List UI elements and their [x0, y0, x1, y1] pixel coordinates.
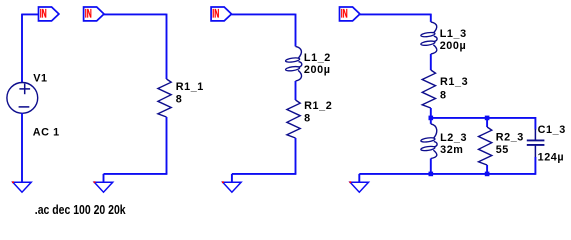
inductor L2_3: [421, 124, 468, 159]
wire ground stub c4: [358, 174, 360, 182]
wire R1_2 bottom lead: [295, 138, 297, 174]
resistor R2_3: [479, 127, 524, 165]
wire R1_3 bottom lead: [430, 108, 432, 118]
wire R1_1 bottom lead: [166, 117, 168, 174]
inductor L1_2: [285, 46, 331, 81]
svg-text:8: 8: [176, 94, 183, 106]
svg-text:R1_3: R1_3: [440, 76, 468, 88]
junction node bottom R2_3: [485, 172, 490, 177]
wire bottom rail: [359, 173, 535, 175]
svg-text:IN: IN: [85, 6, 92, 20]
svg-text:IN: IN: [212, 6, 219, 20]
resistor R1_2: [287, 100, 332, 138]
wire flag1 to V1 top: [22, 13, 39, 15]
svg-text:.ac dec 100 20 20k: .ac dec 100 20 20k: [35, 203, 126, 217]
net flag IN (L1_3): [340, 6, 360, 21]
wire V1 top lead: [21, 14, 23, 83]
svg-text:32m: 32m: [440, 144, 463, 156]
resistor R1_3: [422, 70, 468, 108]
svg-text:200µ: 200µ: [440, 40, 467, 52]
svg-text:55: 55: [496, 144, 509, 156]
svg-text:L2_3: L2_3: [440, 132, 467, 144]
wire ground stub c3: [231, 174, 233, 182]
net flag IN (L1_2): [211, 6, 231, 21]
svg-text:C1_3: C1_3: [538, 124, 566, 136]
svg-text:L1_2: L1_2: [304, 52, 331, 64]
net flag IN (V1): [39, 6, 59, 21]
wire L1_3 to R1_3: [430, 54, 432, 70]
wire L2_3 top lead: [430, 118, 432, 124]
svg-text:L1_3: L1_3: [440, 28, 467, 40]
wire L2_3 bottom lead: [430, 159, 432, 174]
wire R2_3 bottom lead: [486, 165, 488, 174]
ground G2: [94, 181, 113, 192]
svg-text:200µ: 200µ: [304, 64, 331, 76]
svg-text:R1_1: R1_1: [176, 81, 204, 93]
wire flag2 to R1_1: [104, 13, 167, 15]
wire L1_2 top lead: [295, 14, 297, 47]
svg-text:R1_2: R1_2: [304, 100, 332, 112]
svg-text:IN: IN: [341, 6, 348, 20]
resistor R1_1: [158, 79, 204, 117]
svg-text:124µ: 124µ: [538, 152, 565, 164]
svg-text:8: 8: [440, 89, 447, 101]
svg-text:8: 8: [304, 113, 311, 125]
wire top rail: [431, 117, 536, 119]
inductor L1_3: [421, 22, 467, 54]
wire R2_3 top lead: [486, 118, 488, 127]
svg-text:V1: V1: [33, 72, 47, 84]
junction node bottom L2_3: [429, 172, 434, 177]
wire bottom run c3: [232, 173, 297, 175]
svg-text:R2_3: R2_3: [496, 132, 524, 144]
ground G4: [349, 181, 368, 192]
capacitor C1_3: [527, 117, 566, 175]
svg-text:AC 1: AC 1: [33, 126, 60, 138]
wire bottom run c2: [104, 173, 168, 175]
wire flag3 to L1_2: [231, 13, 295, 15]
ground G1: [12, 181, 31, 192]
ground G3: [222, 181, 241, 192]
wire flag4 to L1_3: [360, 13, 431, 15]
svg-text:IN: IN: [40, 6, 47, 20]
voltage source V1: [7, 72, 60, 138]
wire L1_2 to R1_2: [295, 81, 297, 100]
wire ground stub c2: [103, 174, 105, 182]
wire L1_3 top lead: [430, 14, 432, 22]
junction node top L2_3: [429, 116, 434, 121]
junction node top R2_3: [485, 116, 490, 121]
wire R1_1 top lead: [166, 14, 168, 79]
wire V1 bottom lead: [21, 113, 23, 182]
net flag IN (R1_1): [84, 6, 104, 21]
